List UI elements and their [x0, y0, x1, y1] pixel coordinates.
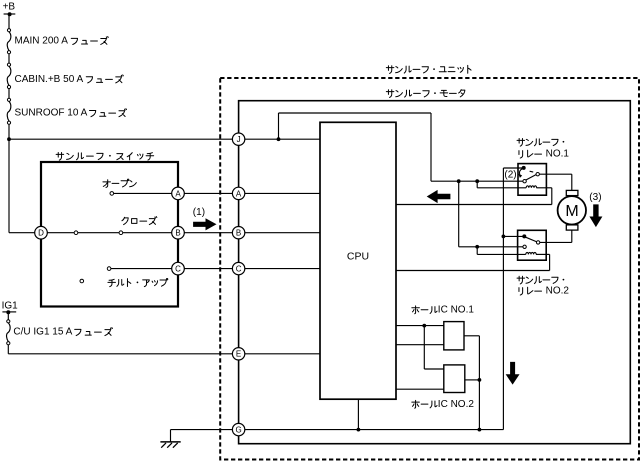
relay NO.1 coil L1 — [526, 186, 536, 188]
wire relay NC common (ground net) — [502, 168, 504, 430]
svg-text:CABIN.+B 50 A: CABIN.+B 50 A — [15, 74, 84, 85]
sunroof motor assembly box — [239, 101, 631, 444]
relay NO.1 pole contact — [523, 180, 526, 183]
wire feed to relay2 contact — [458, 181, 460, 247]
wire G to ground — [171, 429, 239, 431]
connector D (switch) — [35, 226, 48, 239]
wire A to CPU — [239, 192, 320, 194]
sunroof switch box — [41, 162, 178, 307]
node hall feed split — [422, 324, 426, 328]
svg-text:G: G — [235, 426, 241, 435]
connector E (unit) — [232, 348, 244, 360]
label close — [122, 217, 157, 225]
svg-text:NO.2: NO.2 — [546, 286, 570, 297]
connector J (unit) — [232, 133, 244, 145]
label sunroof switch — [56, 152, 154, 160]
svg-text:CPU: CPU — [347, 251, 369, 263]
connector A (switch) — [172, 187, 185, 200]
fuse MAIN 200A F1 — [7, 32, 11, 51]
svg-text:C: C — [175, 265, 181, 274]
annotation arrow (3) down — [589, 204, 602, 227]
svg-text:NO.1: NO.1 — [546, 149, 570, 160]
svg-text:IC NO.1: IC NO.1 — [438, 305, 475, 316]
relay NO.2 coil L2 — [526, 252, 536, 254]
hall IC NO.2 box — [444, 365, 465, 393]
connector C (switch) — [172, 262, 185, 275]
wire +B bus down to switch D — [8, 139, 10, 233]
wire relay NO.2 to motor — [540, 241, 572, 243]
sunroof unit enclosure (dashed) — [220, 78, 639, 460]
svg-text:SUNROOF 10 A: SUNROOF 10 A — [15, 108, 88, 119]
node CPU ground tap — [357, 428, 361, 432]
relay NO.1 box — [518, 164, 546, 196]
motor M — [558, 196, 586, 224]
CPU U1 — [320, 122, 396, 399]
node hall IC2 output junction — [478, 378, 482, 382]
svg-text:B: B — [236, 229, 241, 238]
hall IC NO.1 box — [444, 322, 464, 350]
wire switch A to unit A — [184, 192, 238, 194]
wire CPU to hall IC1 bottom — [396, 344, 444, 346]
svg-text:B: B — [175, 229, 180, 238]
relay NO.2 NO contact — [536, 241, 539, 244]
node relay2 coil feed — [475, 245, 479, 249]
wire switch C to unit C — [184, 268, 238, 270]
wire fuse to +B bus — [8, 124, 10, 139]
wire relay1 coil return to CPU — [536, 187, 551, 189]
relay NO.2 lever — [526, 237, 536, 241]
switch contact tilt-up — [109, 268, 178, 270]
label hall IC NO.1 — [412, 306, 437, 314]
wire B to CPU — [239, 232, 320, 234]
wire E to CPU — [239, 353, 320, 355]
label open — [103, 179, 136, 187]
wire — [8, 54, 10, 63]
wire IG1 fuse to connector E — [7, 345, 9, 354]
svg-text:(3): (3) — [589, 192, 601, 203]
svg-text:J: J — [237, 135, 241, 144]
label tilt-up — [108, 278, 168, 286]
relay NO.1 NO contact — [536, 173, 539, 176]
switch contact close (pole D line) — [41, 232, 178, 234]
relay NO.1 lever — [525, 175, 535, 180]
wire hall IC1 output — [464, 335, 479, 337]
relay NO.1 NC contact — [522, 166, 526, 170]
connector C (unit) — [232, 262, 244, 274]
label sunroof motor — [386, 90, 465, 98]
svg-text:E: E — [236, 350, 241, 359]
svg-text:(1): (1) — [193, 207, 205, 218]
wire feed to relay2 coil — [476, 247, 478, 255]
relay NO.1 contact gap tick — [530, 170, 533, 173]
wire switch B to unit B — [184, 232, 238, 234]
label hall IC NO.2 — [412, 400, 437, 408]
svg-text:D: D — [38, 229, 44, 238]
svg-text:+B: +B — [3, 2, 16, 13]
wire C to CPU — [239, 268, 320, 270]
ground bus wire — [239, 429, 504, 431]
relay NO.2 box — [518, 230, 547, 260]
annotation arrow hall (down) — [506, 362, 520, 385]
wire relay NO.1 to motor — [539, 173, 571, 175]
switch contact spare — [80, 279, 84, 283]
wire hall IC2 output — [465, 379, 480, 381]
connector B (switch) — [172, 226, 185, 239]
node J branch — [277, 137, 281, 141]
wire CPU to hall IC1 top — [396, 325, 444, 327]
wire CPU to hall IC2 bottom — [396, 388, 444, 390]
switch contact open — [112, 192, 178, 194]
label sunroof unit — [386, 65, 471, 73]
relay NO.1 actuation arc (2) — [519, 169, 522, 175]
wire J to CPU — [239, 138, 320, 140]
fuse SUNROOF 10A F3 — [7, 101, 11, 121]
wire +B bus to connector J — [9, 138, 239, 140]
node relay2 NC tap — [502, 235, 506, 239]
wire relay2 coil return to CPU — [536, 253, 550, 255]
svg-text:IC NO.2: IC NO.2 — [438, 399, 475, 410]
svg-text:MAIN 200 A: MAIN 200 A — [15, 36, 69, 47]
label relay NO.1 — [517, 138, 564, 146]
wire feed to relay1 coil — [476, 181, 478, 188]
connector B (unit) — [232, 227, 244, 239]
wire — [8, 89, 10, 99]
node feed split 2 — [475, 179, 479, 183]
svg-text:C: C — [236, 265, 242, 274]
wire J branch up-over to relays (+B feed) — [278, 113, 280, 139]
node feed split 1 — [457, 179, 461, 183]
node +B junction — [7, 137, 11, 141]
svg-text:IG1: IG1 — [2, 300, 19, 311]
wire hall feed to IC2 — [423, 326, 425, 369]
connector A (unit) — [232, 187, 244, 199]
relay NO.2 pole contact — [523, 245, 526, 248]
fuse CABIN.+B 50A F2 — [7, 66, 11, 85]
svg-text:(2): (2) — [504, 170, 516, 181]
wire CPU ground pin — [357, 399, 359, 429]
svg-text:C/U IG1 15 A: C/U IG1 15 A — [13, 327, 72, 338]
connector G (unit) — [232, 423, 244, 435]
fuse C/U IG1 15A F4 — [7, 323, 11, 342]
svg-text:M: M — [565, 203, 578, 220]
ground — [160, 441, 180, 443]
node hall IC ground tap — [478, 428, 482, 432]
relay NO.2 NC contact — [522, 234, 526, 238]
svg-text:A: A — [236, 189, 242, 198]
svg-text:A: A — [175, 189, 181, 198]
label relay NO.2 — [517, 276, 564, 284]
annotation arrow (left, relay drive) — [427, 190, 451, 203]
